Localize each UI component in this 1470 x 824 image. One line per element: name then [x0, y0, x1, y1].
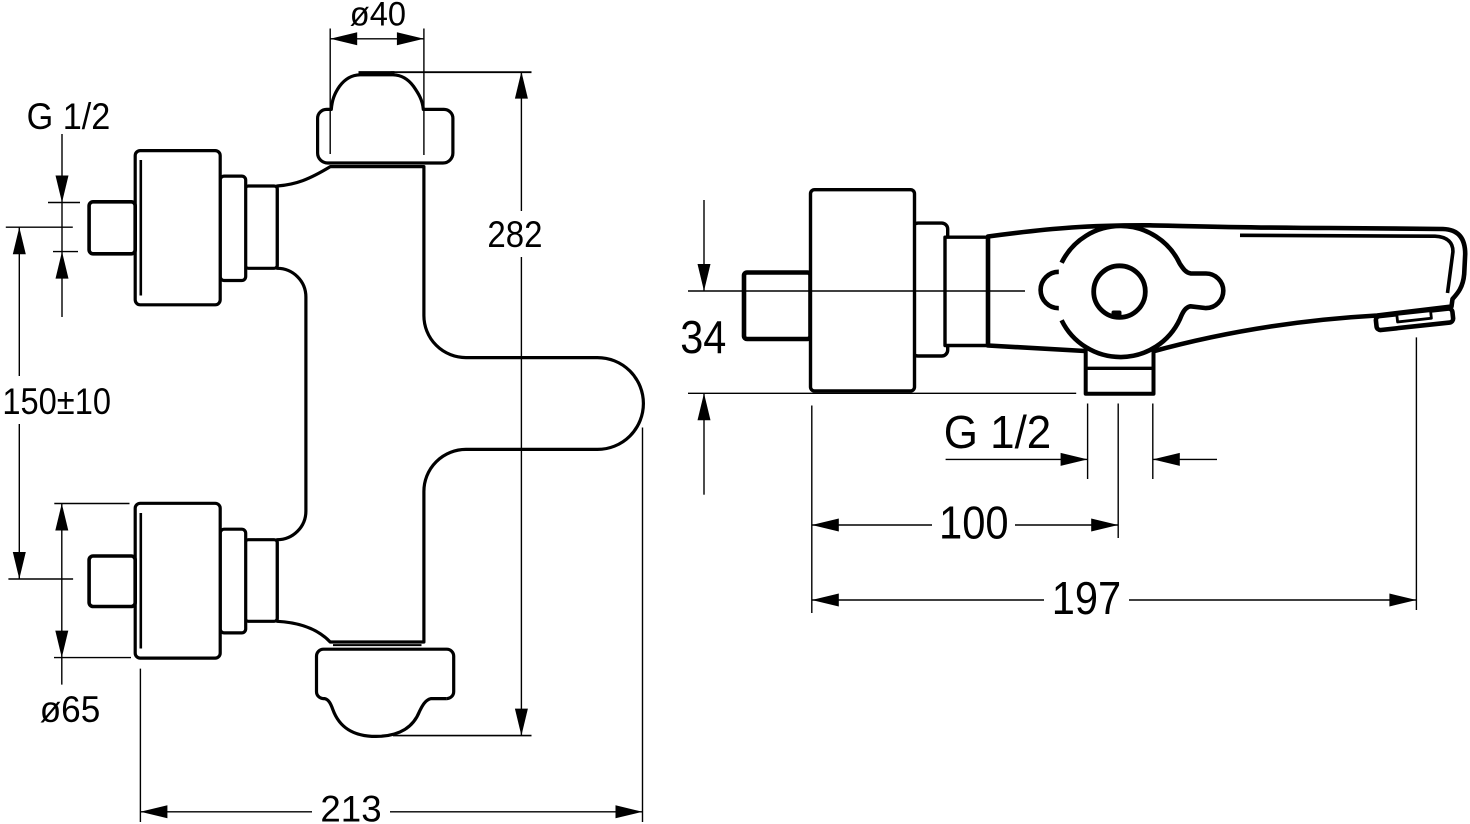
svg-text:ø65: ø65: [40, 689, 101, 730]
svg-text:ø40: ø40: [350, 0, 406, 34]
svg-text:34: 34: [680, 311, 726, 363]
svg-text:282: 282: [487, 214, 542, 255]
svg-text:100: 100: [939, 496, 1009, 548]
svg-text:G 1/2: G 1/2: [27, 96, 111, 137]
svg-text:197: 197: [1052, 572, 1121, 624]
svg-text:150±10: 150±10: [2, 381, 111, 422]
svg-text:213: 213: [320, 789, 381, 824]
svg-text:G 1/2: G 1/2: [944, 406, 1052, 458]
